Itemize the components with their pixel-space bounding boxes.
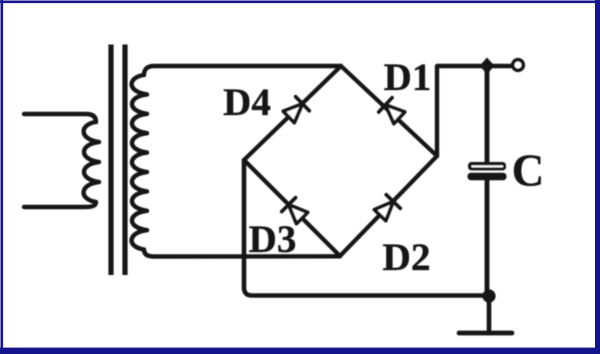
svg-text:D4: D4: [223, 81, 271, 124]
svg-text:D3: D3: [249, 218, 297, 261]
svg-text:C: C: [512, 146, 545, 196]
svg-text:D1: D1: [384, 56, 432, 99]
svg-text:D2: D2: [382, 235, 430, 279]
